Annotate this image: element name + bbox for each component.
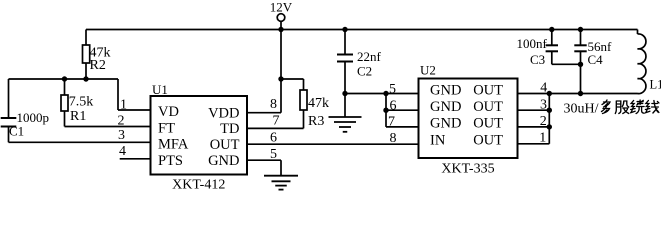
svg-text:R2: R2 [90,58,106,73]
svg-text:R3: R3 [308,114,324,129]
svg-text:U2: U2 [420,63,436,78]
svg-text:100nf: 100nf [517,36,548,51]
svg-text:GND: GND [430,82,461,98]
svg-text:XKT-335: XKT-335 [441,162,494,177]
svg-text:5: 5 [389,82,396,97]
svg-text:47k: 47k [308,96,329,111]
svg-text:GND: GND [430,99,461,115]
svg-text:FT: FT [158,121,175,137]
svg-text:VDD: VDD [208,105,239,121]
svg-text:12V: 12V [270,0,293,15]
svg-text:C3: C3 [530,52,545,67]
svg-text:C2: C2 [357,64,372,79]
svg-text:1: 1 [120,98,127,113]
svg-text:30uH/: 30uH/ [564,102,599,117]
svg-text:OUT: OUT [473,116,503,132]
svg-text:PTS: PTS [158,153,183,169]
svg-text:R1: R1 [70,109,86,124]
svg-text:XKT-412: XKT-412 [172,177,225,192]
svg-text:L1: L1 [650,78,661,92]
svg-text:C1: C1 [9,124,24,139]
svg-text:3: 3 [118,128,125,143]
svg-text:MFA: MFA [158,136,189,152]
svg-text:6: 6 [390,99,397,114]
svg-text:8: 8 [390,131,397,146]
svg-text:2: 2 [118,113,125,128]
svg-text:4: 4 [119,144,126,159]
svg-text:8: 8 [270,97,277,112]
svg-text:1: 1 [539,131,546,146]
svg-text:GND: GND [208,153,239,169]
svg-text:OUT: OUT [210,137,240,153]
svg-text:3: 3 [540,97,547,112]
svg-text:U1: U1 [152,82,168,97]
svg-text:VD: VD [158,104,179,120]
svg-text:7: 7 [388,115,395,130]
svg-text:GND: GND [430,116,461,132]
svg-text:IN: IN [430,133,446,149]
svg-text:C4: C4 [588,52,604,67]
svg-text:2: 2 [540,114,547,129]
svg-text:7: 7 [273,113,280,128]
svg-text:OUT: OUT [473,99,503,115]
svg-text:4: 4 [540,81,547,96]
svg-text:7.5k: 7.5k [69,95,94,110]
svg-text:22nf: 22nf [357,49,382,64]
svg-text:OUT: OUT [473,133,503,149]
svg-text:TD: TD [220,121,239,137]
svg-text:OUT: OUT [473,82,503,98]
